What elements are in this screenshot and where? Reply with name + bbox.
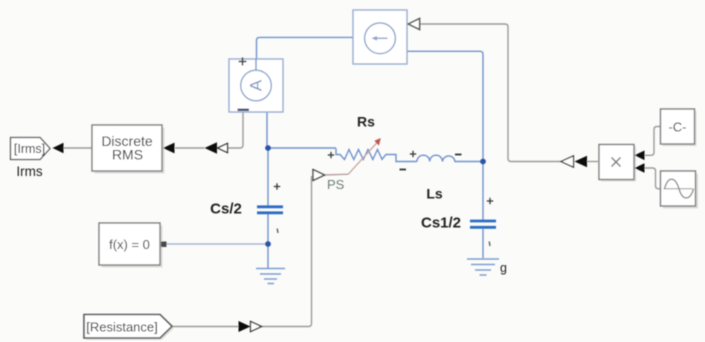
svg-text:-C-: -C- xyxy=(668,119,686,134)
svg-text:g: g xyxy=(500,261,507,275)
svg-text:Cs/2: Cs/2 xyxy=(210,201,242,218)
svg-text:Irms: Irms xyxy=(16,164,42,179)
svg-text:RMS: RMS xyxy=(112,146,143,162)
svg-text:f(x) = 0: f(x) = 0 xyxy=(109,237,150,252)
svg-text:Rs: Rs xyxy=(357,114,375,130)
svg-text:Ls: Ls xyxy=(426,186,443,202)
svg-text:[Resistance]: [Resistance] xyxy=(86,319,158,334)
svg-text:A: A xyxy=(247,79,266,91)
svg-text:PS: PS xyxy=(327,177,345,192)
svg-text:Cs1/2: Cs1/2 xyxy=(421,215,461,232)
svg-text:[Irms]: [Irms] xyxy=(14,142,45,156)
